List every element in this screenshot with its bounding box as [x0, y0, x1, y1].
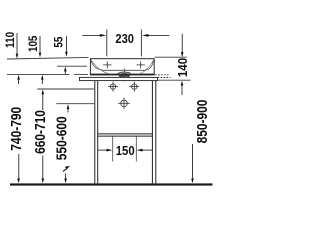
svg-text:660-710: 660-710 — [32, 110, 48, 154]
mounting hole left (circle cross) — [108, 82, 118, 92]
svg-text:150: 150 — [116, 143, 135, 158]
dim 140 upper arrow — [181, 34, 184, 57]
drain outer ellipse — [118, 72, 131, 76]
svg-text:850-900: 850-900 — [194, 100, 210, 144]
dim 230 right tick — [140, 30, 142, 57]
basin outer body — [90, 59, 154, 75]
dim 150 extension tick left — [112, 136, 114, 162]
dim 230 right arrow segment — [142, 34, 169, 37]
towel rail — [98, 134, 153, 136]
dim 660-710 line lower segment with floor arrow — [42, 156, 45, 184]
dim 150 extension tick right — [135, 136, 137, 162]
dim 850-900 lower segment with floor arrow — [191, 144, 194, 183]
dim 740-790 line upper segment with up arrow at line C — [17, 75, 20, 84]
dim 230 left arrow segment — [82, 34, 106, 37]
mounting hole right (circle cross) — [129, 82, 139, 92]
faucet cross left — [103, 61, 111, 68]
mounting rail — [80, 77, 158, 80]
console right leg — [152, 81, 155, 184]
dim 150 right arrow — [137, 149, 153, 152]
dim 550-600 up arrow at line E — [67, 104, 70, 112]
faucet cross right — [137, 61, 145, 68]
svg-text:230: 230 — [115, 31, 134, 46]
dim arrow 110 down — [16, 33, 19, 59]
svg-text:550-600: 550-600 — [54, 116, 70, 160]
drain inner ellipse — [120, 75, 129, 78]
dim 550-600 NE leader arrow — [63, 166, 70, 172]
extension line rail bottom right — [158, 79, 191, 81]
dim arrow 55 up (below line B) — [64, 67, 67, 74]
svg-text:105: 105 — [27, 36, 40, 52]
dim 230 left tick — [106, 30, 108, 57]
extension line A (deck level) — [7, 57, 89, 59]
dim 550-600 lower segment with floor arrow — [64, 174, 67, 184]
svg-text:110: 110 — [4, 32, 17, 48]
dim 740-790 line lower segment with floor arrow — [17, 154, 20, 183]
basin inner bowl curve — [91, 60, 154, 71]
extension line B — [57, 65, 87, 67]
svg-text:140: 140 — [175, 58, 190, 77]
drain center line — [124, 69, 126, 82]
dim arrow 105 up (below line C) — [41, 75, 44, 84]
basin bottom thick edge — [90, 74, 155, 76]
extension line D — [37, 88, 94, 90]
dim 140 extension line top right — [155, 56, 187, 58]
rail hidden mid dashes — [158, 77, 171, 79]
mounting hole center (circle cross) — [118, 98, 130, 110]
extension line C (basin bottom level) — [7, 73, 70, 75]
rail hidden top dashes — [155, 74, 170, 76]
floor line — [10, 183, 213, 185]
svg-text:740-790: 740-790 — [8, 107, 24, 151]
bowl right corner radius — [138, 60, 154, 74]
bowl left corner radius — [91, 60, 111, 74]
console left leg — [95, 81, 98, 184]
dim arrow 105 down — [39, 36, 42, 58]
drain mid ellipse — [119, 73, 130, 77]
dim 150 left arrow — [98, 149, 113, 152]
dim arrow 55 down — [65, 36, 68, 57]
dim 660-710 line upper segment with up arrow at line D — [42, 89, 45, 110]
dim 140 lower arrow — [181, 81, 184, 95]
extension line E — [56, 103, 94, 105]
svg-text:55: 55 — [53, 37, 66, 48]
